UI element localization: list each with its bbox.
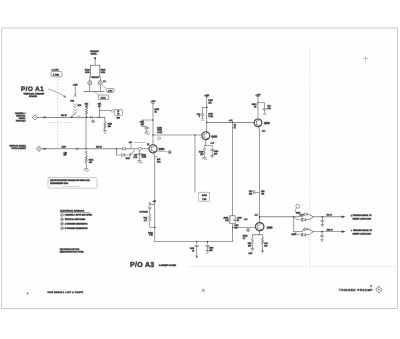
svg-text:+0.7: +0.7 [153,201,156,203]
svg-text:1: 1 [93,121,94,123]
node dot link line 2 [85,148,87,150]
svg-text:2: 2 [62,219,63,221]
svg-text:P/O A1: P/O A1 [21,86,44,93]
wire R20 to line 1 [72,114,76,118]
resistor R436 stub [195,135,210,201]
diode CR425 lower with cap [294,217,314,222]
svg-text:100: 100 [261,193,264,195]
svg-text:FROM Q14: FROM Q14 [16,120,26,122]
svg-text:+15V: +15V [151,101,157,103]
svg-text:16.2K: 16.2K [208,116,213,118]
svg-text:470: 470 [89,162,92,164]
CHANGE LEVEL tag [90,50,99,59]
electrical symbols legend heading [60,209,89,212]
svg-text:470: 470 [208,103,211,105]
wiper circle on line 1 [78,116,80,118]
svg-text:2.2: 2.2 [103,81,105,83]
svg-text:3: 3 [62,224,63,226]
T101 left winding label R103 [85,70,91,74]
selection cross mark [70,95,76,103]
svg-text:+15V: +15V [73,85,79,87]
svg-text:L2R6: L2R6 [62,146,66,148]
diode CR429 lower with cap [294,232,314,237]
svg-text:LEVEL: LEVEL [91,53,98,55]
svg-text:(7): (7) [234,127,237,129]
svg-text:70: 70 [117,113,119,115]
svg-text:BOARD: BOARD [29,95,37,98]
LTH R438 label [140,212,148,214]
wire T101 to diode V2 [99,77,101,81]
wiper circle under node [85,151,87,153]
link wire between line1 and line2 [85,117,87,149]
svg-text:.001: .001 [249,193,253,195]
legend item 4 [61,227,89,230]
svg-text:750: 750 [234,228,237,230]
registration mark top right [363,56,368,62]
wire Q434 collector to Q436 base [153,134,202,136]
svg-text:2R0: 2R0 [116,118,119,120]
diode lamp V1 [88,81,92,85]
svg-text:R30 4.7: R30 4.7 [327,229,333,231]
svg-text:100: 100 [108,126,111,128]
diode CR428 upper [294,228,314,232]
svg-text:A TRIGGER GENERATOR: A TRIGGER GENERATOR [65,223,88,226]
svg-text:SIG 1V: SIG 1V [61,115,68,117]
ground at R432 [202,157,207,160]
svg-text:A SWEEP BOARD: A SWEEP BOARD [159,264,177,267]
P/O A3 board label [130,262,177,269]
interconnect diamond J1 [32,115,37,120]
node dot diode split on line 2 [116,148,118,150]
ground at R415 [84,169,89,172]
serial-number note 1-8 S/N [51,69,62,77]
wire to B trigger output [313,231,341,233]
svg-text:Q434: Q434 [159,148,165,151]
capacitor C427 to ground [321,217,324,225]
svg-text:FROM A SWEEP: FROM A SWEEP [12,147,27,150]
svg-text:+15V: +15V [204,95,210,97]
svg-text:5: 5 [169,152,170,154]
capacitor C436 at Q436 collector [197,107,214,121]
svg-text:+12V: +12V [108,91,114,93]
circled pin 3 below wire [158,137,161,140]
svg-text:Q413: Q413 [264,122,270,125]
node dot output split [293,216,295,218]
capacitor C43B in bridge [234,216,243,224]
node dot C435 branch [152,119,154,121]
svg-text:7: 7 [248,230,249,232]
transistor Q423 [256,223,274,231]
resistor R432 [199,146,206,158]
varistor R20 chevrons [73,103,81,113]
svg-text:B TRIGGER GENERATOR: B TRIGGER GENERATOR [65,227,88,230]
node dot C432 [207,241,209,243]
circled pin 9 on Q1 base line [135,147,149,150]
wire input line 1 [38,115,105,118]
T101 right winding label R105 [101,70,107,74]
transistor Q436 [202,132,218,140]
svg-text:MEASUREMENT DATA: MEASUREMENT DATA [50,182,69,185]
ground at R113 [103,131,106,133]
joining wire under V1 V2 [84,90,105,92]
node dot Q423 collector output [259,216,261,218]
circled pin 7 below base wire [247,229,250,232]
B trigger output text [351,229,373,235]
R419 label on wire [229,120,237,129]
inline ticks on line 1 [90,116,92,118]
svg-text:+1.8: +1.8 [229,120,233,122]
resistor R431 base to ground [133,150,147,160]
transistor Q434 [147,144,165,153]
svg-text:.047: .047 [214,153,218,155]
Q413 emitter long wire down to Q423 [258,127,265,224]
input label vertical signal from sweep [9,144,26,150]
svg-text:1-8 S/N: 1-8 S/N [52,69,60,71]
capacitor C435 [140,120,153,132]
svg-text:.001: .001 [141,124,145,126]
svg-text:56.2: 56.2 [157,161,161,163]
wire from change tag to transformer T101 [94,59,96,65]
node dot C427 [321,216,323,218]
svg-text:A 7935: A 7935 [53,73,60,76]
wire T101 to diode V1 [89,77,91,81]
bottom rail wire [155,241,233,243]
svg-text:+1.7: +1.7 [144,220,148,222]
svg-text:▲ TRIGGER SIGNAL TO: ▲ TRIGGER SIGNAL TO [351,229,373,232]
node dot long rail tap [232,121,234,123]
ground arrow at C431 [196,252,198,258]
node dot R436 tap [194,134,196,136]
resistor R124 [85,103,89,117]
svg-text:100: 100 [248,245,251,247]
R424 label under base wire [243,235,248,239]
diode CR417 lower branch [117,149,135,160]
faint fold line [190,266,395,268]
Q434 emitter to long rail [153,153,160,242]
diode CR416 upper [117,147,135,150]
Q436 collector wire up [204,95,210,132]
svg-text:CHANNEL 1 INPUT AMPLIFIER: CHANNEL 1 INPUT AMPLIFIER [65,214,93,217]
ground at C427 [321,225,324,227]
ground at R422 [251,247,254,251]
B420 bold label [292,233,298,236]
wire to A trigger output [313,216,341,218]
svg-text:R3 4.7: R3 4.7 [327,215,332,217]
svg-text:8456 ERROLL LIST & PARTS: 8456 ERROLL LIST & PARTS [48,291,84,294]
svg-text:8.2M: 8.2M [85,72,90,74]
resistor R423 to -12V [261,235,267,253]
svg-text:VERTICAL PREAMP: VERTICAL PREAMP [24,93,45,96]
A trigger output text [351,214,373,220]
svg-text:SEE NOTE ON FIRST DIAGRAM FOR: SEE NOTE ON FIRST DIAGRAM FOR GRID COOR [50,179,90,182]
capacitor C431 to ground [190,242,199,253]
svg-text:1: 1 [62,215,63,217]
svg-text:Q436: Q436 [211,135,217,138]
-12V label [248,253,253,255]
svg-text:SWEEP LATCH DIAG: SWEEP LATCH DIAG [353,233,372,236]
circled number 1 below line [92,120,95,123]
resistor R418 label [252,104,257,108]
resistor R421 drop to bottom rail [233,225,239,241]
polarized cap C437 on branch [148,207,151,214]
R427 label [327,215,332,217]
svg-text:SEMICONDUCTOR TYPES.: SEMICONDUCTOR TYPES. [60,252,85,254]
ground at R431 [137,161,142,164]
faint feed wire above Q1 base [134,141,147,143]
legend item 1 [61,213,93,216]
node dot branch rejoin [154,227,156,229]
node dot C430 [321,231,323,233]
node junction to TP70 [99,111,101,118]
svg-text:GS2: GS2 [70,100,74,102]
legend item 2 [61,218,86,221]
sheet number diamond [376,286,383,293]
svg-text:C43: C43 [225,220,228,222]
diode lamp V2 [98,81,105,85]
parts list note [60,248,85,254]
long feedback rail down [232,122,234,216]
svg-text:.033: .033 [209,250,213,252]
faint scan speckles [22,63,346,201]
svg-text:VERTICAL SWITCHING: VERTICAL SWITCHING [65,218,86,221]
P/O A1 dashed boundary (horizontal stub) [48,122,72,124]
parallel RC bridge top wire [230,215,236,217]
ground at C432 [206,251,209,253]
svg-text:100: 100 [200,154,203,156]
sheet title TRIGGER PREAMP [339,285,373,292]
TP70 gain box [114,109,122,119]
node dot on collector wire [152,134,154,136]
A3 board dashed boundary [309,46,311,268]
svg-text:P/O A3: P/O A3 [130,262,155,269]
svg-text:R436: R436 [202,195,208,197]
node dot R20 on line 1 [71,116,73,118]
svg-text:R104 2M: R104 2M [92,76,99,79]
svg-text:+1.5: +1.5 [244,219,248,221]
leader arrow from P/O A1 label to dashed boundary [49,89,66,97]
+1.7 annotation [254,215,258,217]
resistor R43B in bridge [223,216,231,224]
R430 label [327,229,333,231]
svg-text:SWEEP LATCH DIAG: SWEEP LATCH DIAG [353,218,372,221]
transistor Q413 [254,119,270,127]
resistor R415 to ground [85,153,93,169]
svg-text:+15V: +15V [256,94,262,96]
+12V tag at lamp [102,85,114,92]
notes box [48,178,97,189]
wire to Q423 base [233,219,256,227]
resistor R126 [98,103,101,110]
svg-text:C1A1: C1A1 [101,96,107,99]
P/O A1 board label [21,86,45,98]
svg-text:R11 1K: R11 1K [96,146,103,148]
wire Q436 collector to Q413 base [207,121,254,123]
test loop TP420 [295,204,303,217]
svg-text:7.5K: 7.5K [202,199,207,201]
Q434 collector wire up [151,101,157,144]
R43A label [148,231,153,236]
svg-text:△ TRIGGER SIGNAL TO: △ TRIGGER SIGNAL TO [351,214,373,217]
+15V feed left column [73,85,79,95]
C/A1 reference box [94,91,108,99]
capacitor C40 label under line 2 [64,152,68,156]
resistor R437 label [208,100,213,104]
svg-text:16.2K: 16.2K [157,132,163,134]
ground at C430 [321,239,324,241]
svg-text:Q423: Q423 [267,227,273,230]
capacitor C433 [211,146,219,156]
svg-text:LTH R438: LTH R438 [140,212,148,214]
node dot R24 on line 1 [86,116,88,118]
svg-text:4: 4 [62,228,63,230]
svg-text:TRIGGER PREAMP: TRIGGER PREAMP [339,288,373,292]
node dot C431 [196,241,198,243]
wire V1 down [89,85,91,92]
Q436 emitter split [204,140,214,146]
wire input line 2 [42,146,117,149]
circled pin 5 right of Q434 [157,151,171,155]
vertical wire to B branch [293,217,295,232]
squiggle ground under C417 [263,113,266,115]
svg-text:2.74K: 2.74K [142,157,147,159]
svg-text:C2: C2 [243,238,245,240]
resistor R113 to ground [104,117,112,131]
svg-text:16: 16 [237,220,239,222]
C434 R434 labels [157,127,163,134]
ground at C435 [145,132,150,135]
ground at C433 [211,156,214,158]
Q413 collector wire up [256,94,262,119]
parallel RC bridge bottom wire [230,224,236,228]
capacitor C421 tap [249,191,265,196]
svg-text:.1: .1 [199,116,201,118]
side branch jog from rail [149,201,156,207]
capacitor C432 to ground [206,242,214,252]
node wire to gain box [99,109,114,112]
svg-text:B417: B417 [126,158,130,160]
resistor R439 on branch [143,214,154,227]
input label channel 1 vertical signal [15,112,26,122]
wire V2 down [99,85,101,92]
arrowhead A trigger [342,216,346,219]
svg-text:16: 16 [192,250,194,252]
legend item 3 [61,222,89,225]
inline cap ticks on line 2 [76,148,78,151]
Q423 emitter split [252,231,262,235]
diode CR424 upper [294,213,314,217]
P/O A1 dashed boundary (vertical) [57,76,59,148]
svg-text:+15: +15 [129,142,132,144]
node dot Q436 collector tap [206,122,208,124]
svg-text:+9.4: +9.4 [262,130,266,132]
resistor R422 to ground [248,235,254,248]
C417 branch with label [257,102,271,112]
svg-text:ELECTRICAL SYMBOLS: ELECTRICAL SYMBOLS [60,209,85,212]
svg-text:100: 100 [264,245,267,247]
arrowhead B trigger [342,230,346,233]
transformer T101 body [90,65,99,79]
capacitor C430 to ground [320,232,323,240]
svg-text:R20: R20 [78,105,81,107]
bottom sheet id text [27,291,84,295]
svg-text:5.2M: 5.2M [101,72,106,74]
svg-text:+4.4: +4.4 [210,143,214,145]
bottom center mark [202,289,204,291]
svg-text:.001: .001 [267,108,271,110]
node dot Q423 base [232,227,234,229]
+15 stub above diode path [129,142,132,149]
wire Q423 collector to output node [260,216,294,218]
interconnect diamond J2 [36,146,41,151]
svg-text:+1.7: +1.7 [254,215,258,217]
R433 label [155,109,160,113]
